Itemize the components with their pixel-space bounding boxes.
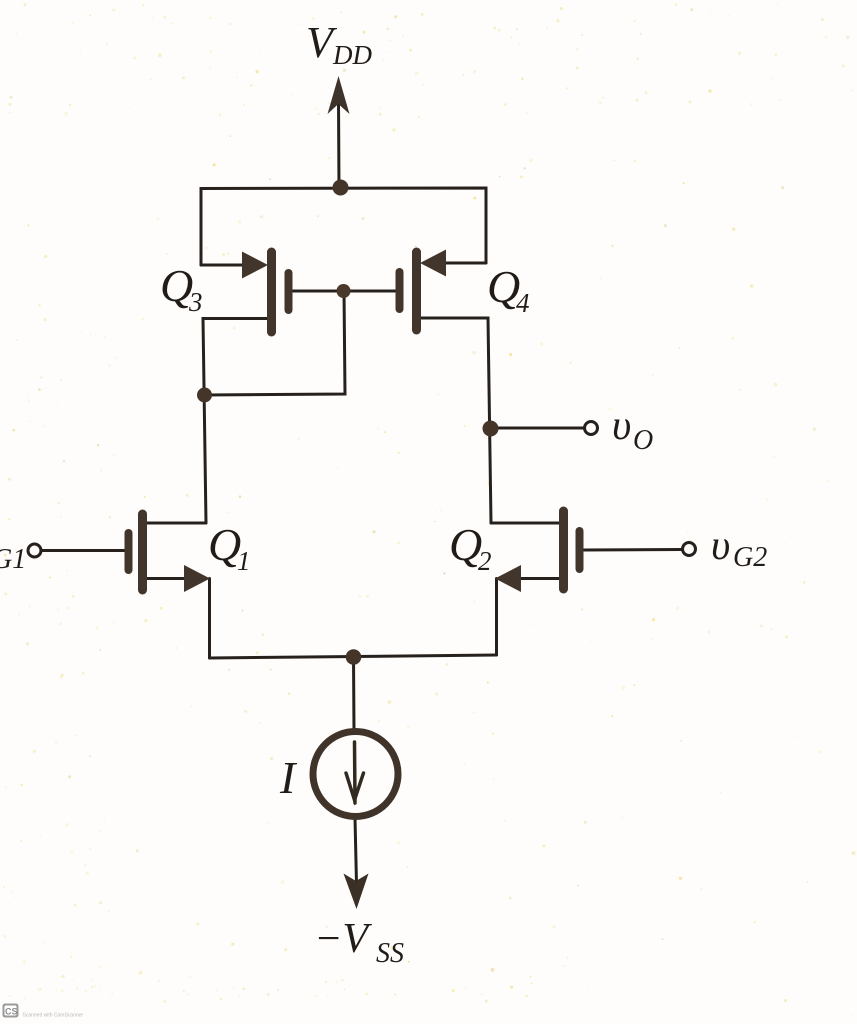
svg-text:G2: G2 — [733, 542, 767, 573]
node VDD junction dot — [333, 180, 349, 196]
transistor Q1 channel bar — [138, 514, 147, 590]
transistor Q3 channel bar — [267, 252, 276, 332]
svg-text:2: 2 — [478, 546, 492, 576]
wire Q4 drain lead — [420, 318, 491, 523]
transistor Q2 channel bar — [559, 511, 568, 589]
watermark CS badge — [3, 1004, 19, 1018]
wire tail to current source — [352, 657, 356, 731]
current source I circle — [313, 732, 398, 817]
wire VDD arrow shaft — [337, 100, 341, 188]
wire Q4 source lead — [441, 262, 486, 265]
wire Q2 source lead — [519, 577, 560, 580]
wire Q1 drain lead — [146, 522, 206, 525]
wire Q3 drain lead — [203, 319, 268, 524]
VSS arrowhead — [344, 874, 369, 910]
transistor Q2 source arrow — [495, 565, 521, 592]
VDD arrowhead — [328, 76, 350, 114]
node vO junction dot — [483, 421, 499, 437]
svg-text:3: 3 — [188, 287, 203, 317]
node gate bus junction dot — [337, 284, 351, 298]
wire Q1 gate lead — [42, 549, 124, 552]
terminal vG1 circle — [28, 544, 41, 557]
wire vO tap — [490, 427, 583, 430]
wire top rail VDD — [201, 188, 486, 265]
wire Q2 gate lead — [584, 548, 681, 552]
transistor Q3 source arrow — [242, 252, 268, 279]
svg-text:SS: SS — [376, 938, 404, 969]
node tail junction dot — [346, 649, 362, 665]
terminal vG2 circle — [683, 543, 696, 556]
svg-text:DD: DD — [332, 40, 372, 70]
wire current source to bottom arrow — [355, 818, 357, 884]
transistor Q3 gate bar — [285, 273, 293, 310]
transistor Q4 channel bar — [412, 252, 421, 330]
wire Q1 source lead — [146, 577, 186, 580]
transistor Q1 gate bar — [125, 533, 133, 570]
node Q3 drain junction dot — [197, 388, 212, 403]
svg-text:4: 4 — [516, 288, 530, 318]
transistor Q4 source arrow — [420, 250, 446, 277]
wire gate bus Q3-Q4 — [293, 290, 396, 293]
current source inner arrow — [346, 742, 364, 803]
svg-text:G1: G1 — [0, 544, 26, 575]
svg-text:υ: υ — [711, 523, 730, 569]
wire tail rail — [210, 655, 497, 658]
transistor Q1 source arrow — [184, 565, 210, 592]
svg-text:I: I — [279, 752, 298, 803]
svg-text:1: 1 — [237, 546, 251, 576]
svg-text:CS: CS — [5, 1007, 18, 1017]
wire Q1 source down to tail — [208, 579, 211, 659]
wire Q2 source down to tail — [495, 579, 498, 656]
wire Q3 source lead — [201, 264, 248, 267]
transistor Q4 gate bar — [396, 272, 404, 309]
svg-text:υ: υ — [612, 403, 631, 449]
terminal vO circle — [585, 422, 598, 435]
svg-text:Scanned with CamScanner: Scanned with CamScanner — [23, 1013, 84, 1019]
transistor Q2 gate bar — [576, 531, 584, 569]
svg-text:O: O — [633, 425, 653, 456]
wire gate feedback down-left — [204, 291, 345, 395]
wire Q2 drain lead — [491, 522, 560, 525]
svg-text:−V: −V — [314, 916, 372, 962]
